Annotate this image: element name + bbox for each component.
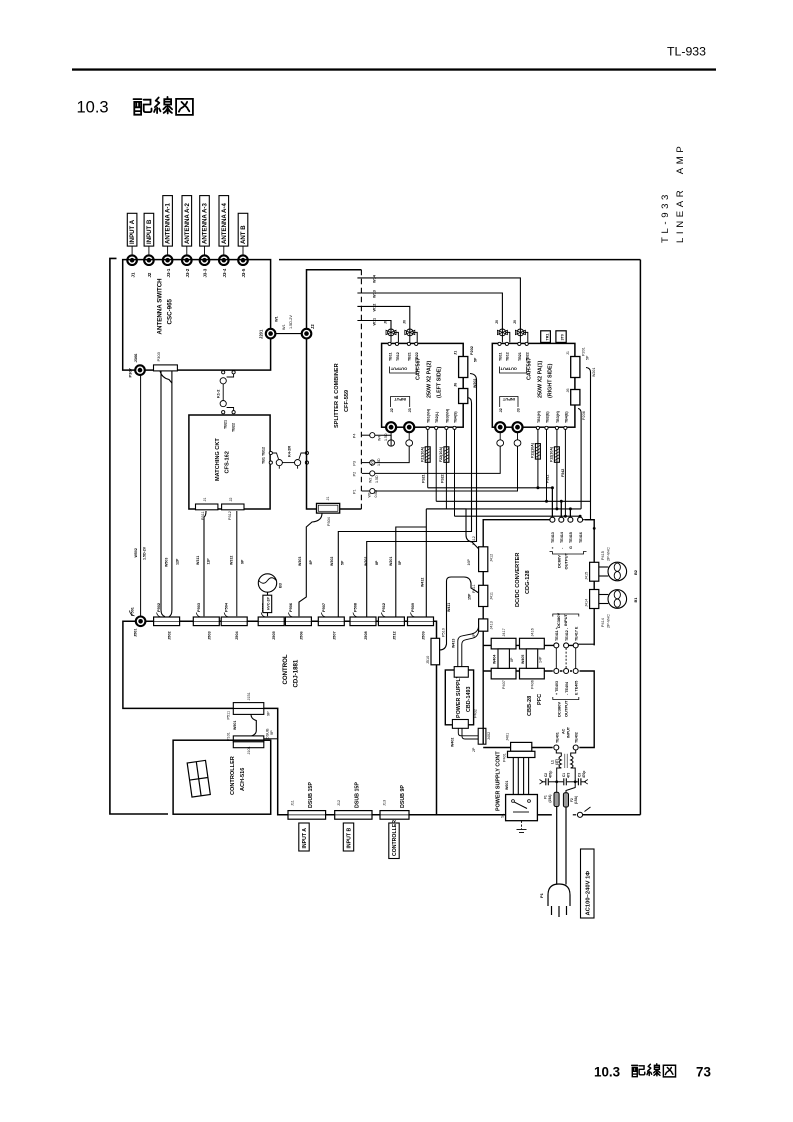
wire W11 from splitter to PA relay <box>357 321 391 330</box>
svg-text:J1: J1 <box>130 272 135 277</box>
svg-text:W11: W11 <box>373 318 377 326</box>
svg-text:12P: 12P <box>176 558 180 565</box>
svg-text:W412: W412 <box>421 578 425 587</box>
svg-text:INPUT: INPUT <box>394 397 407 402</box>
svg-text:OUTPUT: OUTPUT <box>390 367 407 372</box>
coax connector J3-5 <box>238 255 248 265</box>
title kanji 配線図 <box>134 97 193 115</box>
svg-text:9P: 9P <box>270 730 274 735</box>
svg-text:J0: J0 <box>402 320 406 324</box>
svg-text:CONTROLLER: CONTROLLER <box>392 820 398 856</box>
svg-text:W302: W302 <box>330 557 334 566</box>
svg-text:P202: P202 <box>470 346 474 355</box>
svg-text:TE411 +: TE411 + <box>555 627 559 641</box>
boxed label AC100-240V 1 phase <box>581 849 595 918</box>
PA PA(2) coax J2 J3 input jacks <box>386 422 396 432</box>
svg-text:CBB-28: CBB-28 <box>527 696 533 716</box>
svg-text:1.5D: 1.5D <box>375 475 379 483</box>
wire from J512 to J509 riser <box>396 527 427 617</box>
svg-text:K1-2: K1-2 <box>216 389 221 398</box>
svg-text:W12: W12 <box>373 304 377 312</box>
connector J505/P505 on control board top edge <box>258 617 284 626</box>
wire W14 from splitter to PA relay <box>357 278 520 329</box>
svg-text:AC100~240V 1Φ: AC100~240V 1Φ <box>586 871 592 916</box>
svg-text:P411: P411 <box>472 584 476 593</box>
PA PA(2) INPUT bracket <box>391 397 410 408</box>
antenna label box ANTENNA A-4 <box>219 196 229 255</box>
relay K4-2R between matching ckt and splitter <box>273 451 309 468</box>
wire W303 8P from splitter P304 to J506 <box>299 513 322 616</box>
boxed label INPUT A <box>299 823 309 851</box>
svg-text:CSC-965: CSC-965 <box>167 298 174 324</box>
terminals TE411 TE412 TE417 on DC/DC bottom edge <box>554 643 559 648</box>
svg-text:TE417 E: TE417 E <box>575 626 579 641</box>
svg-text:W405: W405 <box>521 655 525 664</box>
boxed label CONTROLLER <box>389 820 399 859</box>
svg-text:G: G <box>569 546 573 549</box>
svg-text:J504: J504 <box>234 631 239 640</box>
wire W503 12P from P303 to J502 <box>160 371 172 617</box>
svg-text:P1: P1 <box>353 489 357 494</box>
svg-text:5P: 5P <box>586 355 590 360</box>
PA PA(2) pins TB11 TB12 TB21 TB22 <box>388 342 418 345</box>
connector J2/P312 on matching bottom edge <box>222 497 244 520</box>
svg-text:LINEAR AMP: LINEAR AMP <box>675 143 686 243</box>
svg-text:P407: P407 <box>502 680 506 689</box>
svg-text:J3-3: J3-3 <box>203 268 208 277</box>
svg-text:15P: 15P <box>468 593 472 600</box>
svg-text:1.5D: 1.5D <box>384 433 388 441</box>
svg-text:10.3: 10.3 <box>594 1065 620 1080</box>
svg-text:ANTENNA A-1: ANTENNA A-1 <box>165 203 172 244</box>
bus wire to TE416 <box>455 515 581 518</box>
svg-text:J3-4: J3-4 <box>222 268 227 277</box>
svg-text:J502: J502 <box>167 631 172 640</box>
svg-text:J411: J411 <box>490 592 494 600</box>
svg-text:0.8D: 0.8D <box>374 490 378 498</box>
bus wire to TE415 and J509 <box>426 409 581 617</box>
PA PA(2) input relays J0 <box>386 329 398 342</box>
splitter output P4 wire W4 <box>353 433 392 447</box>
svg-text:P507: P507 <box>321 603 326 612</box>
svg-text:2P: 2P <box>472 747 476 752</box>
svg-text:P414: P414 <box>601 618 605 627</box>
svg-text:CONTROL: CONTROL <box>282 654 289 684</box>
svg-text:J2: J2 <box>229 497 233 501</box>
splitter output P3 wire W3 <box>353 446 410 466</box>
svg-text:CFF-559: CFF-559 <box>344 390 350 412</box>
PA PA(2) labels <box>416 358 443 398</box>
svg-text:P512: P512 <box>381 602 386 612</box>
svg-text:J11: J11 <box>291 800 295 806</box>
pins TB1 TB12 on matching right edge <box>269 451 272 464</box>
PA module PA(2) box <box>382 343 464 427</box>
coax connector J201 on antenna switch right edge <box>266 329 276 339</box>
AC power cord <box>557 807 566 885</box>
svg-text:DC380V: DC380V <box>557 702 562 717</box>
svg-text:W4: W4 <box>378 436 382 441</box>
svg-text:11P: 11P <box>207 558 211 565</box>
svg-text:P511: P511 <box>227 711 231 720</box>
svg-text:TB2(L): TB2(L) <box>435 411 439 423</box>
svg-text:W402: W402 <box>451 738 455 747</box>
capacitor bus C2 C1 C3 of line filter <box>540 778 588 785</box>
switch S1 ground stub <box>517 821 527 833</box>
svg-text:J1: J1 <box>566 351 570 355</box>
svg-text:TB1(H): TB1(H) <box>537 410 541 423</box>
PA PA(2) plug circles under J2 J3 <box>388 432 413 446</box>
splitter output P1 wire W1 <box>353 446 518 497</box>
svg-text:W1: W1 <box>368 492 372 497</box>
connector J509/P509 on control board top edge <box>408 617 434 626</box>
svg-text:B3: B3 <box>278 582 283 588</box>
svg-text:470p: 470p <box>582 771 586 778</box>
connector J1/P311 on matching bottom edge <box>196 497 218 520</box>
svg-text:TB21: TB21 <box>518 352 522 361</box>
svg-text:P402: P402 <box>474 709 478 718</box>
svg-text:W501: W501 <box>233 721 237 730</box>
splitter output P2 wire W2 <box>353 446 501 483</box>
chassis ground circle on bottom border <box>577 807 590 817</box>
connector J503/P503 on control board top edge <box>193 617 219 626</box>
svg-text:ANTENNA A-4: ANTENNA A-4 <box>221 203 228 244</box>
svg-text:L1: L1 <box>551 760 555 764</box>
svg-text:F11(10A): F11(10A) <box>531 442 535 458</box>
svg-text:DSUB 15P: DSUB 15P <box>355 782 361 808</box>
svg-text:TB3(VH): TB3(VH) <box>445 408 449 423</box>
power supply cont label <box>496 751 502 811</box>
antenna label box INPUT A <box>127 213 137 255</box>
terminals TE413 TE414 TE415 TE416 <box>550 517 555 522</box>
svg-text:W202: W202 <box>364 557 368 566</box>
PA PA(1) input relays J0 <box>497 329 509 342</box>
antenna switch CSC-965 box <box>123 260 271 371</box>
svg-text:P406: P406 <box>531 680 535 689</box>
wires down to TE413-TE416 terminals <box>552 488 580 517</box>
svg-text:FS22: FS22 <box>441 474 445 483</box>
wire from J101 to control notch edge <box>264 738 278 740</box>
DC380V INPUT bracket <box>553 614 579 617</box>
svg-text:J3-5: J3-5 <box>241 268 246 277</box>
svg-text:PFC: PFC <box>537 694 543 705</box>
svg-text:INPUT: INPUT <box>502 397 515 402</box>
svg-text:J1: J1 <box>326 496 330 500</box>
svg-text:(3T): (3T) <box>555 759 559 765</box>
svg-text:W601: W601 <box>505 781 509 790</box>
svg-text:J1: J1 <box>454 351 458 355</box>
svg-text:TB12: TB12 <box>506 352 510 361</box>
bus wire to TE413 <box>428 488 553 517</box>
svg-text:1.5D-2V: 1.5D-2V <box>289 315 293 329</box>
svg-text:ACH-516: ACH-516 <box>240 768 246 791</box>
connector J502/P502 on control board top edge <box>154 617 180 626</box>
svg-text:SPLITTER & COMBINER: SPLITTER & COMBINER <box>334 363 340 428</box>
wire from PA(2) J1 to J508 <box>367 374 477 617</box>
svg-text:TB21: TB21 <box>408 352 412 361</box>
control board label CDJ-1881 <box>282 654 300 687</box>
svg-text:P1: P1 <box>539 892 544 898</box>
connector J504/P504 on control board top edge <box>221 617 247 626</box>
svg-text:TE416: TE416 <box>579 532 583 543</box>
svg-text:DC/DC CONVERTER: DC/DC CONVERTER <box>515 553 521 607</box>
svg-text:- TE404: - TE404 <box>565 681 569 695</box>
PA(1) output connector J1/P201 <box>566 347 596 377</box>
svg-text:W1: W1 <box>282 324 286 330</box>
coax connector P307 on antenna switch bottom edge <box>135 365 145 375</box>
PFC labels <box>527 694 543 716</box>
connector J1/P304 on splitter bottom edge <box>317 496 340 526</box>
matching circuit CFS-162 box <box>189 415 270 509</box>
svg-text:1.5D-2V: 1.5D-2V <box>142 546 146 560</box>
svg-text:F542: F542 <box>561 469 565 477</box>
fan B3 connector HVC-2P above J505 <box>258 574 276 616</box>
svg-text:DSUB: DSUB <box>266 728 270 739</box>
wire from TB4 PA(1) <box>564 430 566 517</box>
AC plug P1 <box>548 884 570 917</box>
svg-text:J2: J2 <box>147 272 152 277</box>
svg-text:5P: 5P <box>474 357 478 362</box>
svg-text:TE412 -: TE412 - <box>565 627 569 641</box>
svg-text:P504: P504 <box>224 602 229 612</box>
controller seven segment display icon <box>187 760 210 797</box>
wire FS11 vertical from fuse F11 <box>537 430 539 488</box>
svg-text:J2: J2 <box>499 408 503 412</box>
svg-text:C2: C2 <box>544 773 548 777</box>
svg-text:INPUT A: INPUT A <box>129 219 136 244</box>
antenna label box ANTENNA A-1 <box>163 196 173 255</box>
svg-text:TB21: TB21 <box>224 420 228 429</box>
PA PA(1) labels <box>526 358 553 398</box>
terminals TE403 TE404 TE405 on PFC top edge <box>554 669 559 674</box>
svg-text:P303: P303 <box>156 351 161 361</box>
connector P303 on antenna switch bottom edge <box>154 351 178 371</box>
switch S1 box <box>501 795 538 821</box>
svg-text:OUTPUT: OUTPUT <box>564 700 569 717</box>
svg-text:J503: J503 <box>206 631 211 640</box>
coax connector J2 <box>144 255 154 265</box>
power supply cont cable W601 <box>513 758 528 795</box>
svg-text:8P: 8P <box>375 560 379 565</box>
svg-text:+ TE403: + TE403 <box>555 681 559 695</box>
DC380V OUTPUT bracket <box>553 697 579 700</box>
connector J11 DSUB 15P <box>288 782 326 820</box>
relay K1-2 <box>220 371 235 414</box>
connector J413 4P <box>472 619 494 638</box>
wire W201 from PA(1) J1 down right side <box>586 368 591 502</box>
svg-text:F2: F2 <box>570 798 574 802</box>
svg-text:TL-933: TL-933 <box>660 191 671 243</box>
side caption TL-933 LINEAR AMP <box>660 143 686 243</box>
svg-text:5P: 5P <box>398 560 402 565</box>
svg-text:F21(10A): F21(10A) <box>421 446 425 462</box>
svg-text:F12(10A): F12(10A) <box>550 446 554 462</box>
svg-text:J401: J401 <box>506 733 510 741</box>
wire W402 from P402 to J402 <box>458 728 478 739</box>
svg-text:9P: 9P <box>240 559 244 564</box>
svg-text:DSUB 15P: DSUB 15P <box>308 782 314 808</box>
PA(1) output connector J6/P206 <box>566 388 586 420</box>
connector J412 16P <box>467 536 494 571</box>
svg-text:C1: C1 <box>562 773 566 777</box>
wire from TB4 PA(2) <box>454 430 456 517</box>
svg-text:J12: J12 <box>337 800 341 806</box>
svg-text:MATCHING CKT: MATCHING CKT <box>215 438 221 481</box>
svg-text:J6: J6 <box>566 388 570 392</box>
svg-text:J506: J506 <box>298 631 303 640</box>
svg-text:W201: W201 <box>389 557 393 566</box>
diagram left bracket border <box>110 258 168 814</box>
svg-text:TE414: TE414 <box>560 531 564 543</box>
svg-text:J3: J3 <box>516 408 520 412</box>
fuse F2 (15A) <box>563 782 575 807</box>
boxed label INPUT B <box>343 823 353 851</box>
svg-text:J3-2: J3-2 <box>185 268 190 277</box>
bus wire to TE414 <box>436 501 590 519</box>
svg-text:W201: W201 <box>592 368 596 377</box>
svg-text:W312: W312 <box>230 556 234 565</box>
svg-text:J306: J306 <box>133 353 138 363</box>
fan connector J415 2P-VHC <box>585 547 611 581</box>
svg-text:(15A): (15A) <box>548 795 552 803</box>
links TE411-TE403 TE412-TE404 TE417-TE405 <box>556 648 575 668</box>
connector J507/P507 on control board top edge <box>318 617 344 626</box>
svg-text:S1: S1 <box>501 813 505 818</box>
terminals TE401 TE402 AC INPUT <box>554 745 559 750</box>
wire from TB2 PA(1) <box>546 430 548 502</box>
connector J401/P401 on PFC bottom edge <box>503 733 535 762</box>
fan connector J414 2P-VHC <box>585 590 611 629</box>
svg-text:INPUT: INPUT <box>563 613 568 626</box>
svg-text:TL-933: TL-933 <box>667 45 706 59</box>
PA PA(1) INPUT bracket <box>500 397 518 408</box>
wire from fuse F12 <box>556 430 558 509</box>
svg-text:W13: W13 <box>373 290 377 298</box>
bridge connector J416/P406 14P <box>520 628 545 689</box>
svg-text:CFS-162: CFS-162 <box>225 451 231 473</box>
svg-text:2P-VHC: 2P-VHC <box>607 614 611 628</box>
svg-text:ANTENNA SWITCH: ANTENNA SWITCH <box>157 278 164 335</box>
svg-text:P201: P201 <box>582 347 586 356</box>
diagram top border <box>279 259 640 261</box>
svg-text:J416: J416 <box>531 628 535 636</box>
svg-text:3T0: 3T0 <box>561 334 565 340</box>
PA PA(1) plug circles under J2 J3 <box>497 432 521 446</box>
svg-text:P401: P401 <box>503 753 507 762</box>
svg-text:TB2(E): TB2(E) <box>546 411 550 423</box>
svg-text:250W X2 PA(1): 250W X2 PA(1) <box>537 360 543 398</box>
svg-text:TE402: TE402 <box>575 732 579 743</box>
PA PA(1) OUTPUT bracket <box>500 367 527 374</box>
svg-text:HVC-2P: HVC-2P <box>266 596 270 610</box>
svg-text:W3: W3 <box>371 461 375 466</box>
svg-text:CONTROLLER: CONTROLLER <box>230 756 236 795</box>
svg-text:2P-VHC: 2P-VHC <box>607 547 611 561</box>
coax connector J2 on splitter left edge <box>302 329 312 339</box>
connector P402 on power supply bottom edge <box>452 709 477 728</box>
svg-text:J6: J6 <box>454 383 458 387</box>
svg-text:P502: P502 <box>156 602 161 612</box>
svg-text:W502: W502 <box>134 548 138 557</box>
svg-text:P2: P2 <box>353 472 357 477</box>
svg-text:DC80V: DC80V <box>557 555 562 568</box>
svg-text:W2: W2 <box>369 478 373 483</box>
PA PA(1) pins TB1-TB4 <box>536 426 567 429</box>
svg-text:POWER SUPPLY CONT: POWER SUPPLY CONT <box>496 751 502 811</box>
svg-text:W404: W404 <box>493 655 497 664</box>
wire from PA(2) J6 to J507 <box>338 398 471 617</box>
svg-text:TB22: TB22 <box>526 352 530 361</box>
svg-text:J508: J508 <box>363 631 368 640</box>
connector J402 2P on PFC left edge <box>472 728 491 752</box>
svg-text:AC: AC <box>561 728 565 734</box>
svg-text:INPUT: INPUT <box>566 726 570 738</box>
svg-text:W311: W311 <box>196 556 200 565</box>
svg-text:CBD-1493: CBD-1493 <box>466 687 472 712</box>
coax connector J501/P501 on control board <box>136 617 146 627</box>
svg-text:E TE405: E TE405 <box>575 681 579 695</box>
coax connector J3-2 <box>182 255 192 265</box>
antenna label box ANTENNA A-3 <box>200 196 210 255</box>
wire W1 from J201 to J2 with label 1.5D-2V <box>275 315 301 334</box>
wire W13 from splitter to PA relay <box>357 293 502 329</box>
svg-text:P312: P312 <box>228 511 232 520</box>
wire W411 from P510 to J411 <box>440 577 479 650</box>
svg-text:J512: J512 <box>391 631 396 640</box>
svg-text:J2: J2 <box>310 324 315 329</box>
svg-text:CDG-128: CDG-128 <box>525 570 531 594</box>
svg-text:J0: J0 <box>513 320 517 324</box>
connector P101/J101 on controller top edge <box>227 728 275 755</box>
svg-text:FS21: FS21 <box>422 474 426 483</box>
wire labels on J507 drop <box>330 557 345 566</box>
svg-text:B2: B2 <box>633 569 638 575</box>
antenna label box INPUT B <box>144 213 154 255</box>
fuse F22(10A) <box>444 447 449 463</box>
svg-text:CDJ-1881: CDJ-1881 <box>293 659 300 687</box>
wire from TB2 PA(2) <box>435 430 437 502</box>
junction dot on fan supply wire <box>593 527 596 530</box>
diagram right border <box>639 260 641 815</box>
svg-text:73: 73 <box>696 1065 711 1080</box>
svg-text:W303: W303 <box>298 557 302 566</box>
svg-text:TB22: TB22 <box>415 352 419 361</box>
svg-text:TB4(S): TB4(S) <box>454 411 458 423</box>
power supply CBD-1493 box <box>445 670 473 725</box>
line filter transformer L1 (3T) <box>556 750 575 782</box>
svg-text:5P: 5P <box>341 560 345 565</box>
svg-text:J509: J509 <box>421 631 426 640</box>
wire labels on J508 drop <box>364 557 379 566</box>
DC80V OUTPUT bracket <box>550 552 587 555</box>
svg-text:TB11: TB11 <box>388 352 392 361</box>
svg-text:W413: W413 <box>452 639 456 648</box>
svg-text:J402: J402 <box>487 732 491 740</box>
svg-text:8P: 8P <box>510 657 514 662</box>
svg-text:8P: 8P <box>309 560 313 565</box>
svg-text:(15A): (15A) <box>574 796 578 804</box>
fuse F12(10A) <box>554 447 559 463</box>
svg-text:ANTENNA A-3: ANTENNA A-3 <box>202 203 209 244</box>
svg-text:250W X2 PA(2): 250W X2 PA(2) <box>427 360 433 398</box>
svg-text:DSUB 9P: DSUB 9P <box>400 785 406 808</box>
svg-text:P412: P412 <box>472 536 476 545</box>
svg-text:J0: J0 <box>495 320 499 324</box>
svg-text:INPUT B: INPUT B <box>347 827 353 848</box>
cable W501 from P511 to P101 <box>251 714 256 736</box>
svg-text:J3-1: J3-1 <box>166 268 171 277</box>
svg-text:J151: J151 <box>247 692 251 700</box>
fan B1 <box>599 590 627 609</box>
